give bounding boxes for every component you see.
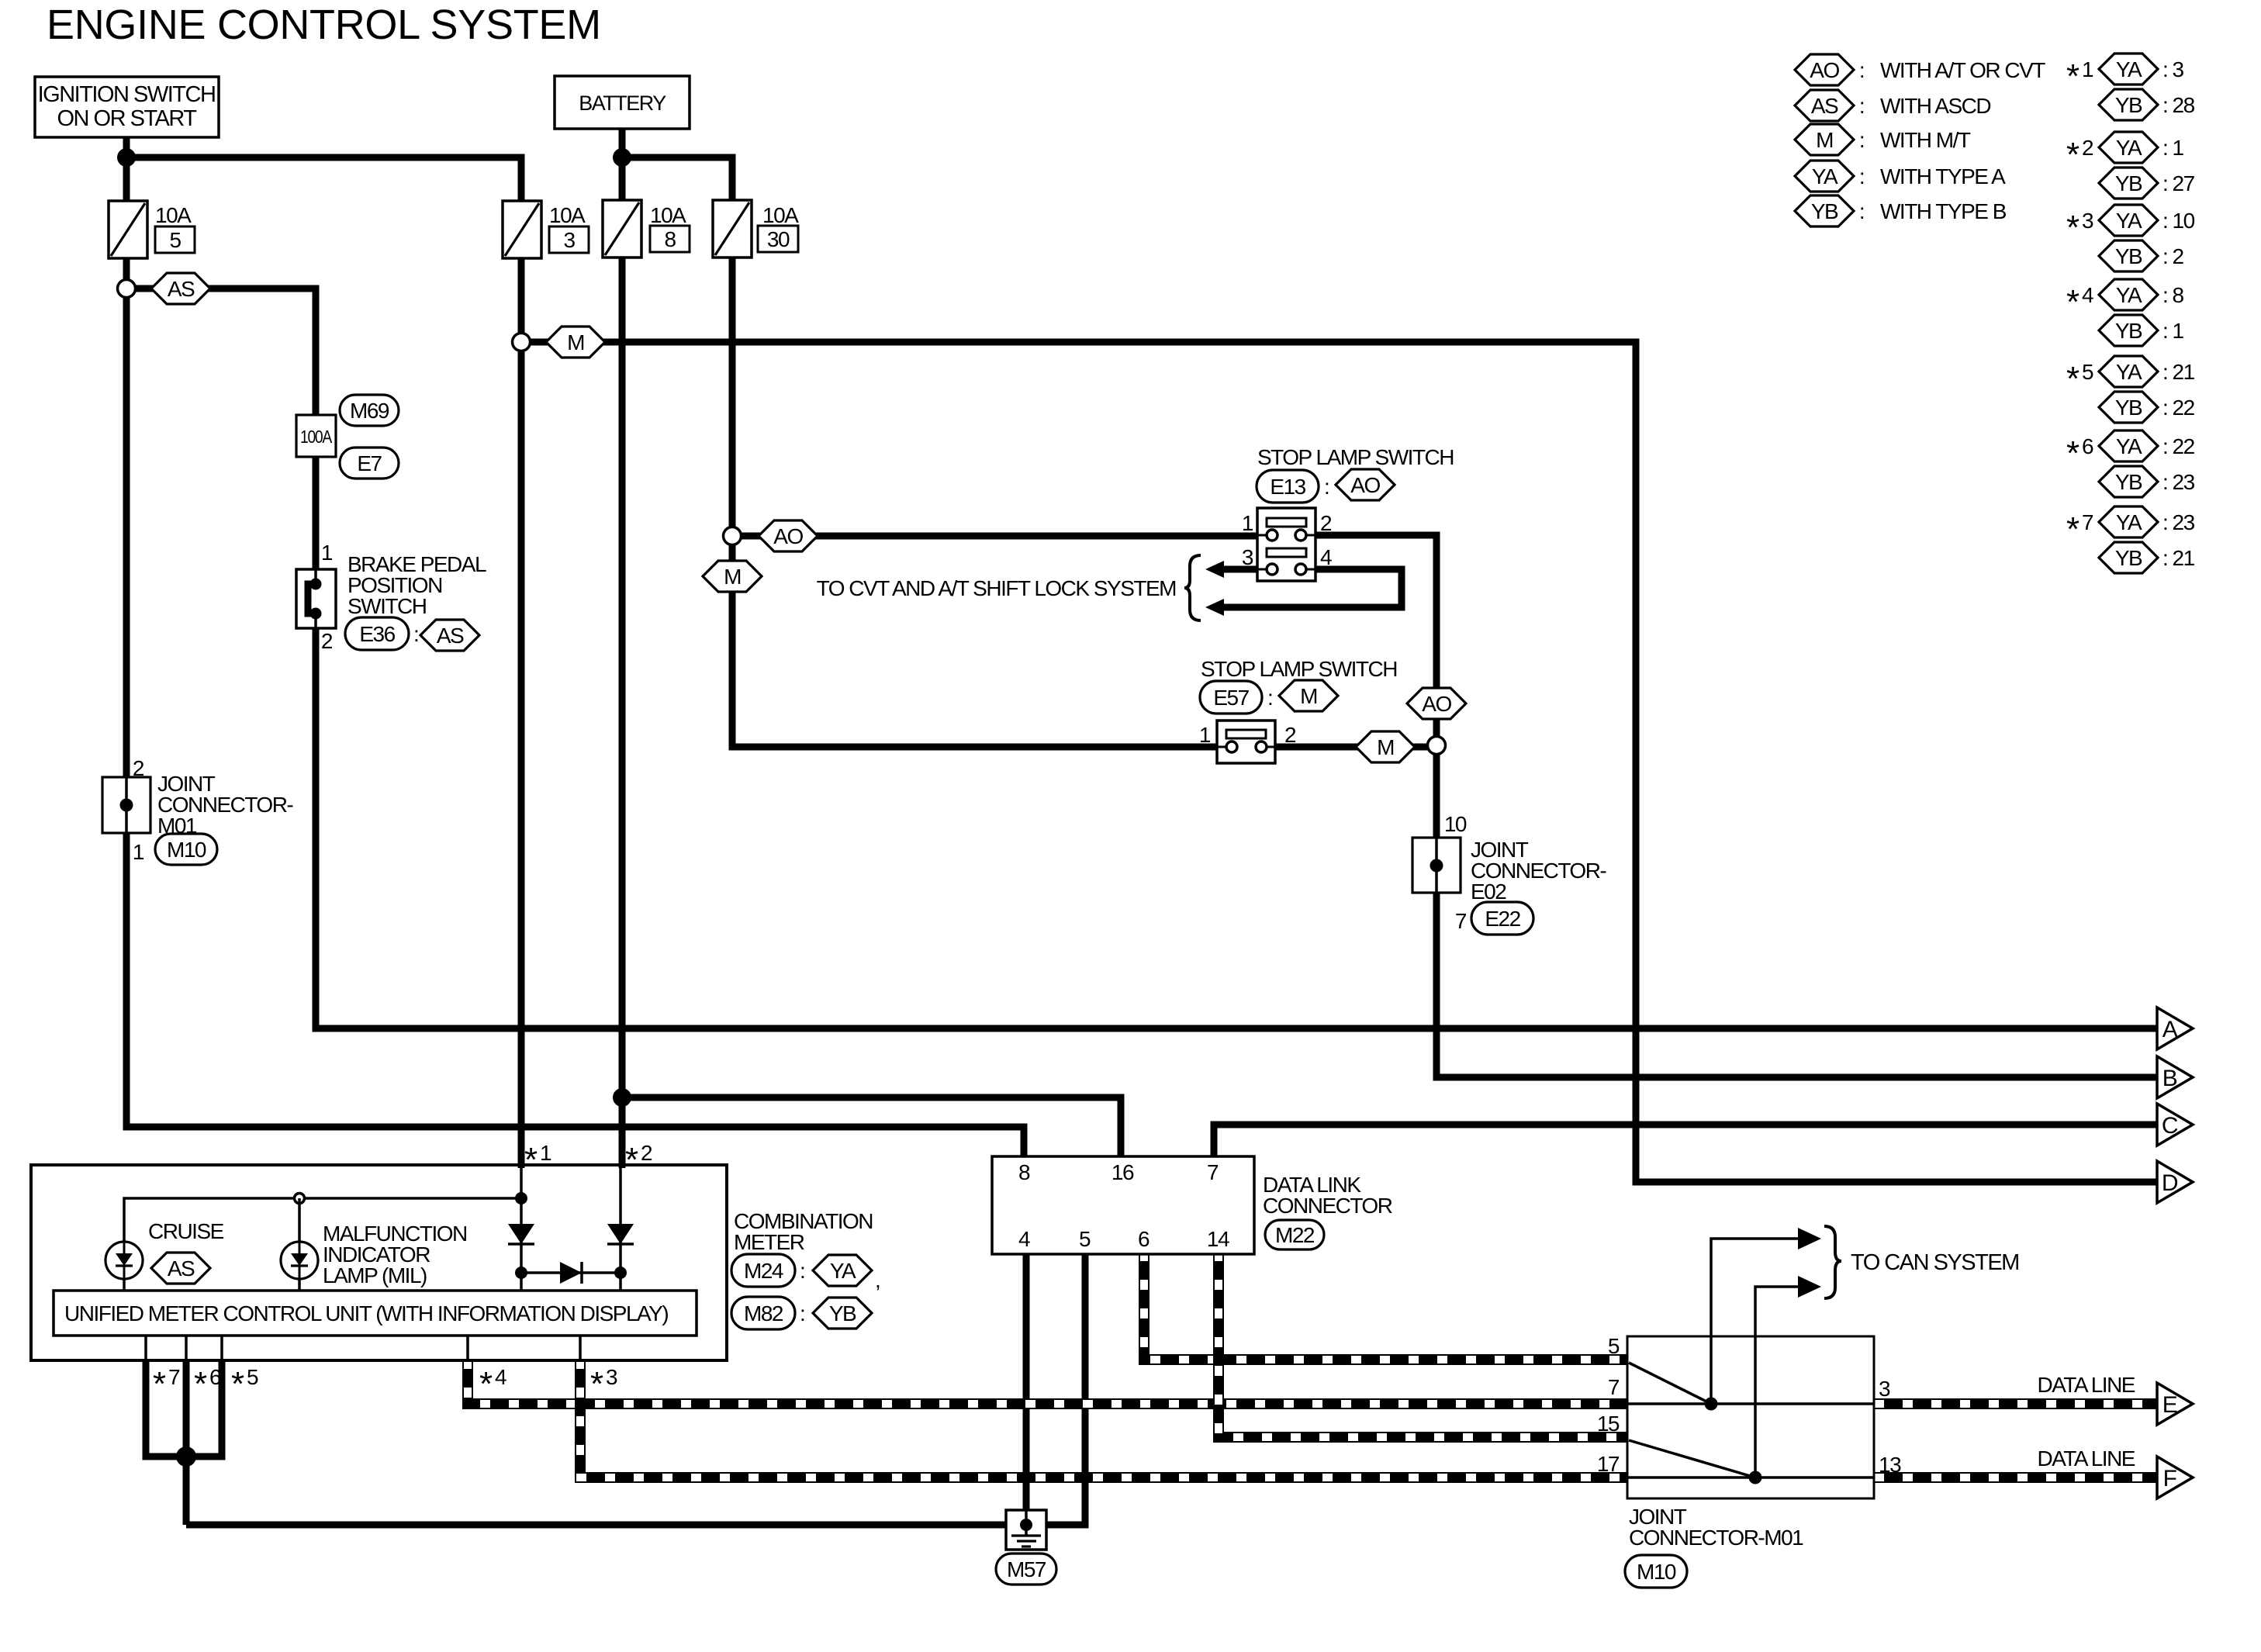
wire meter internal bus	[124, 1198, 521, 1242]
legend *5 YB	[2099, 392, 2158, 423]
svg-text:2: 2	[133, 756, 144, 780]
diode D3 bridge	[560, 1262, 582, 1284]
node MIL tap circle	[295, 1194, 305, 1204]
svg-text:E22: E22	[1485, 907, 1520, 931]
node M tag on E57 pin2 wire	[1356, 731, 1415, 762]
svg-text:AO: AO	[1422, 692, 1451, 716]
wire MIL lamp feed	[298, 1198, 301, 1242]
arrow E output	[2157, 1383, 2193, 1425]
svg-text:E02: E02	[1471, 880, 1506, 904]
data link connector box M22	[992, 1156, 1254, 1254]
legend M tag	[1795, 124, 1854, 155]
svg-text:1: 1	[1199, 723, 1211, 747]
svg-text:4: 4	[495, 1365, 506, 1389]
wire dashed *3 to F-line (data line)	[580, 1359, 1627, 1477]
svg-text:YB: YB	[2115, 244, 2142, 268]
svg-text::: :	[1859, 199, 1864, 223]
node junction D1 anode	[515, 1267, 527, 1279]
svg-text:YA: YA	[2116, 283, 2142, 307]
arrow to CVT shift lock lower	[1205, 599, 1224, 616]
svg-text:*: *	[625, 1141, 638, 1179]
svg-text:M: M	[724, 565, 741, 589]
wire AS branch to A-line	[126, 289, 2160, 1028]
svg-text:YB: YB	[2115, 396, 2142, 420]
fusible link 100A	[296, 415, 336, 457]
svg-text:7: 7	[1608, 1375, 1620, 1399]
connector E36	[345, 617, 409, 650]
wire fuse-8 to combination meter *2	[619, 256, 626, 1168]
svg-text:M: M	[1300, 684, 1317, 708]
svg-text:E57: E57	[1213, 686, 1249, 710]
svg-text:*: *	[590, 1365, 603, 1403]
node M tag on fuse-30 vertical	[703, 561, 762, 592]
fuse 10A No.5	[109, 201, 147, 258]
svg-text:YB: YB	[2115, 171, 2142, 195]
svg-text:3: 3	[563, 228, 575, 252]
node junction on fuse-8 wire	[613, 1088, 631, 1107]
wire meter *6 to junction	[183, 1359, 190, 1525]
svg-text:ON OR START: ON OR START	[57, 106, 198, 131]
connector E7	[340, 448, 399, 479]
svg-text:YB: YB	[2115, 546, 2142, 570]
node junction CAN 1	[1705, 1398, 1718, 1411]
svg-text:F: F	[2163, 1466, 2177, 1491]
svg-text::: :	[800, 1259, 804, 1283]
wire CAN branch 1	[1711, 1239, 1798, 1404]
svg-text:YA: YA	[2116, 136, 2142, 160]
node AS tag cruise	[151, 1253, 210, 1284]
legend AO tag	[1795, 54, 1854, 85]
svg-text:8: 8	[1018, 1160, 1030, 1184]
connector E57	[1200, 681, 1262, 714]
svg-text:2: 2	[641, 1141, 652, 1165]
svg-text:M69: M69	[350, 399, 389, 423]
svg-text:: 28: : 28	[2162, 93, 2195, 117]
svg-text:1: 1	[2082, 57, 2093, 81]
arrow D output	[2125, 1161, 2193, 1203]
svg-text:C: C	[2162, 1113, 2178, 1139]
svg-text:1: 1	[321, 541, 333, 565]
svg-text:10A: 10A	[650, 203, 686, 227]
svg-text:*: *	[231, 1365, 244, 1403]
node junction circle on fuse-30 wire	[724, 527, 742, 545]
legend AS tag	[1795, 90, 1854, 121]
svg-text:YA: YA	[2116, 360, 2142, 384]
svg-text:IGNITION SWITCH: IGNITION SWITCH	[38, 82, 216, 107]
node junction D2 anode	[614, 1267, 627, 1279]
svg-text:: 21: : 21	[2162, 546, 2195, 570]
wire cruise lamp to UMCU	[123, 1279, 126, 1291]
connector E22	[1471, 902, 1533, 935]
svg-text:: 22: : 22	[2162, 434, 2195, 458]
brace shift lock	[1184, 555, 1201, 620]
svg-text:M82: M82	[744, 1301, 783, 1325]
svg-text:ENGINE CONTROL SYSTEM: ENGINE CONTROL SYSTEM	[47, 2, 601, 48]
svg-text:YA: YA	[2116, 510, 2142, 534]
arrow to CAN system 2	[1798, 1276, 1821, 1298]
svg-text:: 21: : 21	[2162, 360, 2195, 384]
svg-text:CRUISE: CRUISE	[148, 1219, 224, 1243]
svg-text:METER: METER	[734, 1230, 804, 1254]
svg-text:AO: AO	[1350, 473, 1380, 497]
arrow F output	[2157, 1457, 2193, 1498]
joint connector-M01 (M10)	[102, 777, 150, 833]
svg-text::: :	[413, 622, 418, 646]
wire *2 internal	[619, 1165, 622, 1291]
svg-text:BATTERY: BATTERY	[579, 92, 666, 115]
svg-text:AS: AS	[1811, 94, 1838, 118]
svg-text:*: *	[524, 1141, 538, 1179]
arrow to CVT shift lock upper	[1205, 561, 1224, 578]
svg-text:6: 6	[209, 1365, 221, 1389]
svg-text:*: *	[2066, 434, 2079, 472]
svg-text:: 1: : 1	[2162, 136, 2184, 160]
node AO tag for E13	[1336, 469, 1395, 500]
svg-text:: 8: : 8	[2162, 283, 2184, 307]
svg-text::: :	[1859, 128, 1864, 152]
svg-text:STOP LAMP SWITCH: STOP LAMP SWITCH	[1257, 445, 1454, 469]
joint connector-E02 (E22)	[1412, 838, 1461, 893]
svg-text:5: 5	[1608, 1334, 1620, 1358]
wire dashed *4 to E-line (data line)	[468, 1359, 1627, 1404]
wire ignition switch to junction	[123, 137, 130, 159]
wire battery junction down to fuse 8	[619, 157, 626, 203]
svg-text:SWITCH: SWITCH	[347, 594, 426, 618]
svg-text:10A: 10A	[549, 203, 586, 227]
svg-text::: :	[1859, 58, 1864, 82]
node AO tag on fuse-30 wire	[759, 520, 818, 551]
wire junction to DLC pin 16	[622, 1097, 1121, 1160]
svg-text:E13: E13	[1270, 475, 1305, 499]
svg-text:: 27: : 27	[2162, 171, 2195, 195]
svg-text:7: 7	[168, 1365, 180, 1389]
label fuse 8 number box	[650, 226, 690, 252]
node connector junction below fuse 3	[513, 334, 531, 351]
svg-text:M10: M10	[167, 838, 206, 862]
svg-text:M57: M57	[1007, 1557, 1046, 1581]
legend YA tag	[1795, 161, 1854, 192]
svg-text:16: 16	[1111, 1160, 1134, 1184]
svg-text::: :	[1267, 686, 1272, 710]
svg-text:5: 5	[1079, 1227, 1091, 1251]
svg-text:*: *	[2066, 283, 2079, 321]
wire UMCU pin *4 stub	[466, 1336, 469, 1360]
svg-text:6: 6	[1138, 1227, 1150, 1251]
wire E13 pin 3 to shift lock arrow	[1222, 566, 1260, 573]
svg-text:M: M	[1816, 128, 1833, 152]
svg-text:M24: M24	[744, 1259, 783, 1283]
combination meter box	[31, 1165, 727, 1360]
svg-text:TO CAN SYSTEM: TO CAN SYSTEM	[1851, 1250, 2019, 1275]
legend YB tag	[1795, 195, 1854, 226]
svg-text:2: 2	[1284, 723, 1296, 747]
svg-text:100A: 100A	[300, 427, 333, 447]
svg-text:AS: AS	[168, 1256, 195, 1280]
node YB tag meter	[813, 1298, 872, 1329]
svg-text:*: *	[2066, 136, 2079, 174]
legend *4 YB	[2099, 315, 2158, 346]
wire M branch to D-line	[521, 342, 2160, 1182]
legend *2 YB	[2099, 168, 2158, 199]
diode D1 on *1	[508, 1224, 534, 1244]
connector M10 (bottom)	[1625, 1555, 1687, 1588]
svg-text:5: 5	[2082, 360, 2093, 384]
svg-text:WITH TYPE B: WITH TYPE B	[1880, 199, 2007, 223]
svg-text:D: D	[2162, 1170, 2178, 1196]
svg-text:YB: YB	[1811, 199, 1838, 223]
MIL lamp	[281, 1242, 318, 1279]
ground M57	[1006, 1510, 1046, 1550]
svg-text:YB: YB	[829, 1301, 856, 1325]
svg-text:: 1: : 1	[2162, 319, 2184, 343]
wire UMCU pin *5 stub	[220, 1336, 223, 1360]
svg-text:2: 2	[2082, 136, 2093, 160]
legend *7 YB	[2099, 542, 2158, 573]
svg-text::: :	[1859, 164, 1864, 188]
wire E13 pin 4 loop to shift lock arrow	[1222, 569, 1402, 607]
wire dashed DLC pin 6 to M01 pin 5	[1144, 1251, 1627, 1360]
wire meter ground bus to M57	[186, 1522, 1009, 1529]
svg-text:E36: E36	[359, 622, 395, 646]
svg-text:WITH ASCD: WITH ASCD	[1880, 94, 1990, 118]
wire UMCU pin *6 stub	[185, 1336, 188, 1360]
stop lamp switch E57	[1217, 721, 1275, 763]
svg-text:17: 17	[1597, 1452, 1620, 1476]
wire ignition junction down to fuse 5	[123, 157, 130, 203]
svg-text:: 10: : 10	[2162, 209, 2195, 233]
wire dashed E data line out	[1874, 1398, 2164, 1409]
svg-text:3: 3	[1242, 545, 1253, 569]
wire dashed F data line out	[1874, 1472, 2164, 1483]
connector M24	[731, 1254, 795, 1287]
connector M22	[1265, 1220, 1324, 1249]
svg-text:13: 13	[1879, 1453, 1901, 1477]
wire *1 internal	[520, 1165, 523, 1291]
svg-text:DATA LINE: DATA LINE	[2037, 1373, 2135, 1397]
wire UMCU pin *3 stub	[579, 1336, 582, 1360]
svg-text:E7: E7	[357, 451, 382, 475]
wire fuse-3 to combination meter *1	[518, 256, 525, 1168]
wire M01 diagonal 15-17	[1629, 1440, 1755, 1477]
svg-text:7: 7	[2082, 510, 2093, 534]
joint connector-M01 (M10) box	[1627, 1336, 1874, 1498]
brake pedal position switch E36	[296, 569, 336, 628]
svg-text:M: M	[567, 330, 584, 354]
node junction CAN 2	[1749, 1471, 1762, 1484]
wire meter *7 to junction	[146, 1359, 185, 1457]
svg-text:1: 1	[1242, 511, 1253, 535]
fuse 10A No.3	[503, 201, 541, 258]
node AO tag on E13 branch vertical	[1407, 688, 1466, 719]
node YA tag meter	[813, 1255, 872, 1286]
wire diode bridge	[521, 1271, 621, 1274]
wire fuse-30 to stop lamp switch E57 pin 1	[732, 256, 1219, 747]
wire ignition junction to fuse-3 column	[126, 157, 521, 203]
svg-text:4: 4	[2082, 283, 2093, 307]
legend *6 YB	[2099, 466, 2158, 497]
svg-text:10: 10	[1444, 812, 1467, 836]
svg-text:YA: YA	[2116, 209, 2142, 233]
svg-text:5: 5	[169, 228, 181, 252]
wire DLC pin 5 to ground M57	[1043, 1251, 1085, 1525]
wire M01 row 7-3	[1627, 1402, 1874, 1405]
node M tag for E57	[1279, 680, 1338, 711]
label fuse 5 number box	[155, 226, 195, 253]
svg-text:YB: YB	[2115, 470, 2142, 494]
svg-text:STOP LAMP SWITCH: STOP LAMP SWITCH	[1201, 657, 1397, 681]
node connector junction below fuse 5	[118, 280, 136, 298]
svg-text:1: 1	[133, 840, 144, 864]
svg-text:YB: YB	[2115, 93, 2142, 117]
wire battery to junction	[619, 129, 626, 159]
node battery junction	[613, 148, 631, 167]
svg-text:*: *	[2066, 360, 2079, 398]
svg-text:: 23: : 23	[2162, 470, 2195, 494]
svg-text:*: *	[2066, 57, 2079, 95]
svg-text:: 22: : 22	[2162, 396, 2195, 420]
svg-text:WITH TYPE A: WITH TYPE A	[1880, 164, 2006, 188]
svg-text:2: 2	[1320, 511, 1332, 535]
svg-text::: :	[1859, 94, 1864, 118]
svg-text:4: 4	[1320, 545, 1332, 569]
svg-text:YB: YB	[2115, 319, 2142, 343]
arrow B output	[2125, 1056, 2193, 1098]
unified meter control unit box	[54, 1291, 697, 1336]
svg-text:3: 3	[1879, 1377, 1890, 1401]
svg-text:*: *	[2066, 510, 2079, 548]
connector E13	[1257, 470, 1319, 503]
connector M10	[155, 834, 217, 865]
svg-text:7: 7	[1207, 1160, 1219, 1184]
svg-text::: :	[1324, 475, 1329, 499]
svg-text:YA: YA	[2116, 57, 2142, 81]
node AS tag on ASCD branch	[151, 273, 210, 304]
svg-text:4: 4	[1018, 1227, 1030, 1251]
svg-text::: :	[800, 1301, 804, 1325]
svg-text:*: *	[2066, 209, 2079, 247]
wire battery junction to fuse-30 column	[622, 157, 732, 203]
svg-text:AO: AO	[1810, 58, 1839, 82]
svg-text:*: *	[479, 1365, 493, 1403]
arrow C output	[2125, 1104, 2193, 1146]
svg-text:DATA LINE: DATA LINE	[2037, 1446, 2135, 1471]
svg-text:TO CVT AND A/T SHIFT LOCK SYST: TO CVT AND A/T SHIFT LOCK SYSTEM	[817, 576, 1177, 600]
battery box	[555, 76, 690, 129]
wire CAN branch 2	[1755, 1287, 1798, 1477]
node junction circle AO/M	[1428, 737, 1446, 755]
fuse 10A No.30	[713, 200, 752, 257]
svg-text:: 2: : 2	[2162, 244, 2184, 268]
svg-text:E: E	[2162, 1392, 2177, 1418]
svg-text:*: *	[194, 1365, 207, 1403]
svg-text:AO: AO	[773, 524, 803, 548]
svg-text:M10: M10	[1637, 1560, 1676, 1584]
wire E13 pin 2 down to B-line	[1313, 535, 2160, 1077]
svg-text:WITH M/T: WITH M/T	[1880, 128, 1971, 152]
wire M01 row 17-13	[1627, 1476, 1874, 1479]
arrow to CAN system 1	[1798, 1228, 1821, 1249]
wire UMCU pin *7 stub	[144, 1336, 147, 1360]
svg-text:M22: M22	[1275, 1223, 1315, 1247]
svg-text:15: 15	[1597, 1412, 1620, 1436]
svg-text:8: 8	[664, 227, 676, 251]
svg-text:B: B	[2162, 1066, 2177, 1091]
svg-text:30: 30	[767, 227, 790, 251]
svg-text:7: 7	[1455, 909, 1467, 933]
svg-text:3: 3	[2082, 209, 2093, 233]
connector M69	[340, 395, 399, 426]
brace CAN	[1824, 1226, 1841, 1298]
svg-text:YA: YA	[830, 1259, 856, 1283]
arrow A output	[2125, 1007, 2193, 1049]
wire dashed DLC pin 14 to M01 pin 15	[1219, 1251, 1627, 1437]
stop lamp switch E13	[1257, 508, 1315, 581]
wire meter *5 to junction	[188, 1359, 222, 1457]
wire AO junction to stop lamp switch E13 pin 1	[732, 533, 1260, 540]
wire M01 diagonal 5-7	[1629, 1363, 1711, 1404]
svg-text:3: 3	[606, 1365, 617, 1389]
node M tag on M/T branch	[546, 327, 605, 358]
node junction of *5 *6 *7	[176, 1446, 196, 1467]
svg-text:AS: AS	[168, 277, 195, 301]
svg-text:UNIFIED METER CONTROL UNIT (WI: UNIFIED METER CONTROL UNIT (WITH INFORMA…	[64, 1301, 668, 1325]
wire fuse-5 to joint connector M01 and DLC pin 8	[126, 256, 1024, 1160]
wire E57 pin 2 to AO/M junction	[1273, 744, 1436, 751]
svg-text:YA: YA	[2116, 434, 2142, 458]
connector M57	[996, 1554, 1056, 1585]
svg-text:*: *	[153, 1365, 166, 1403]
svg-text:: 3: : 3	[2162, 57, 2184, 81]
svg-text:,: ,	[875, 1268, 880, 1292]
label fuse 3 number box	[549, 226, 589, 253]
node junction *1 internal	[515, 1192, 527, 1204]
svg-text:10A: 10A	[155, 203, 192, 227]
node AS tag for E36	[420, 620, 479, 651]
svg-text:CONNECTOR-M01: CONNECTOR-M01	[1629, 1526, 1803, 1550]
svg-text:YA: YA	[1812, 164, 1838, 188]
svg-text:2: 2	[321, 629, 333, 653]
svg-text:M: M	[1377, 735, 1394, 759]
wire DLC pin 7 to C-line	[1214, 1125, 2160, 1160]
diode D2 on *2	[607, 1224, 634, 1244]
connector M82	[731, 1297, 795, 1329]
svg-text:5: 5	[247, 1365, 258, 1389]
svg-text:A: A	[2162, 1017, 2178, 1042]
cruise lamp	[105, 1242, 143, 1279]
fuse 10A No.8	[603, 200, 641, 257]
legend *3 YB	[2099, 240, 2158, 271]
legend *1 YB	[2099, 89, 2158, 120]
svg-text:10A: 10A	[762, 203, 799, 227]
svg-text:14: 14	[1207, 1227, 1229, 1251]
svg-text:AS: AS	[437, 624, 464, 648]
wire MIL lamp to UMCU	[298, 1279, 301, 1291]
wire DLC pin 4 to ground M57	[1023, 1251, 1030, 1525]
svg-text:6: 6	[2082, 434, 2093, 458]
node ignition junction	[117, 148, 136, 167]
svg-text:LAMP (MIL): LAMP (MIL)	[323, 1263, 427, 1287]
label fuse 30 number box	[758, 226, 798, 252]
ignition switch box	[35, 77, 219, 137]
svg-text:1: 1	[540, 1141, 551, 1165]
svg-text:: 23: : 23	[2162, 510, 2195, 534]
svg-text:CONNECTOR: CONNECTOR	[1263, 1194, 1392, 1218]
svg-text:WITH A/T OR CVT: WITH A/T OR CVT	[1880, 58, 2045, 82]
